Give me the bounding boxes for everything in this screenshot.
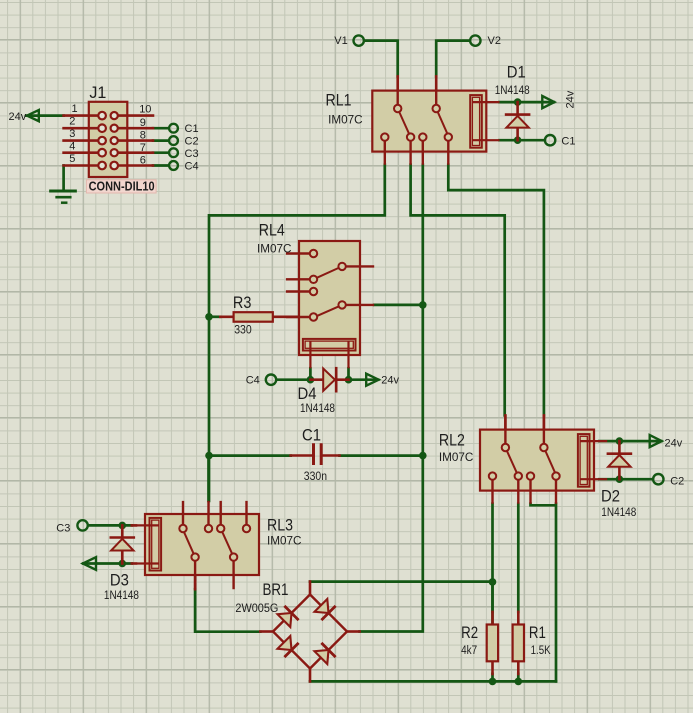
svg-text:5: 5	[69, 153, 75, 165]
svg-text:D2: D2	[601, 487, 620, 506]
svg-text:J1: J1	[89, 83, 106, 102]
svg-text:2W005G: 2W005G	[235, 603, 278, 615]
svg-text:RL4: RL4	[259, 221, 285, 240]
svg-text:1N4148: 1N4148	[300, 403, 335, 415]
svg-text:C1: C1	[185, 123, 199, 135]
svg-text:6: 6	[140, 155, 146, 167]
svg-text:7: 7	[140, 142, 146, 154]
svg-text:10: 10	[139, 104, 151, 116]
svg-text:IM07C: IM07C	[267, 535, 302, 547]
svg-text:1N4148: 1N4148	[601, 507, 636, 519]
svg-text:24v: 24v	[381, 375, 399, 387]
svg-text:V2: V2	[488, 35, 501, 47]
svg-text:R1: R1	[529, 623, 546, 642]
svg-text:1N4148: 1N4148	[104, 590, 139, 602]
svg-text:330n: 330n	[304, 471, 327, 483]
svg-text:3: 3	[69, 128, 75, 140]
svg-text:D1: D1	[507, 62, 526, 81]
svg-text:C2: C2	[670, 476, 684, 488]
svg-text:4k7: 4k7	[461, 645, 477, 657]
svg-text:24v: 24v	[565, 90, 577, 108]
svg-text:IM07C: IM07C	[328, 115, 363, 127]
svg-text:4: 4	[69, 141, 75, 153]
svg-text:9: 9	[140, 117, 146, 129]
svg-text:C3: C3	[185, 148, 199, 160]
svg-text:C1: C1	[302, 426, 321, 445]
svg-text:C1: C1	[561, 136, 575, 148]
svg-text:2: 2	[69, 116, 75, 128]
svg-text:330: 330	[234, 324, 252, 336]
svg-text:1.5K: 1.5K	[531, 645, 551, 657]
svg-text:1N4148: 1N4148	[495, 85, 530, 97]
svg-text:24v: 24v	[9, 111, 27, 123]
svg-text:RL1: RL1	[326, 91, 352, 110]
svg-text:C3: C3	[56, 522, 70, 534]
svg-text:IM07C: IM07C	[257, 244, 292, 256]
svg-text:1: 1	[72, 103, 78, 115]
svg-text:RL3: RL3	[267, 516, 293, 535]
svg-text:24v: 24v	[665, 438, 683, 450]
svg-text:R2: R2	[461, 623, 478, 642]
svg-text:CONN-DIL10: CONN-DIL10	[89, 179, 155, 193]
svg-text:RL2: RL2	[439, 430, 465, 449]
svg-text:C4: C4	[185, 161, 199, 173]
svg-text:C4: C4	[246, 375, 260, 387]
svg-text:D3: D3	[110, 570, 129, 589]
svg-text:BR1: BR1	[263, 580, 289, 599]
svg-text:IM07C: IM07C	[439, 452, 474, 464]
svg-text:D4: D4	[298, 384, 317, 403]
svg-text:V1: V1	[334, 35, 347, 47]
svg-text:8: 8	[140, 130, 146, 142]
svg-text:C2: C2	[185, 136, 199, 148]
svg-text:R3: R3	[233, 293, 252, 312]
